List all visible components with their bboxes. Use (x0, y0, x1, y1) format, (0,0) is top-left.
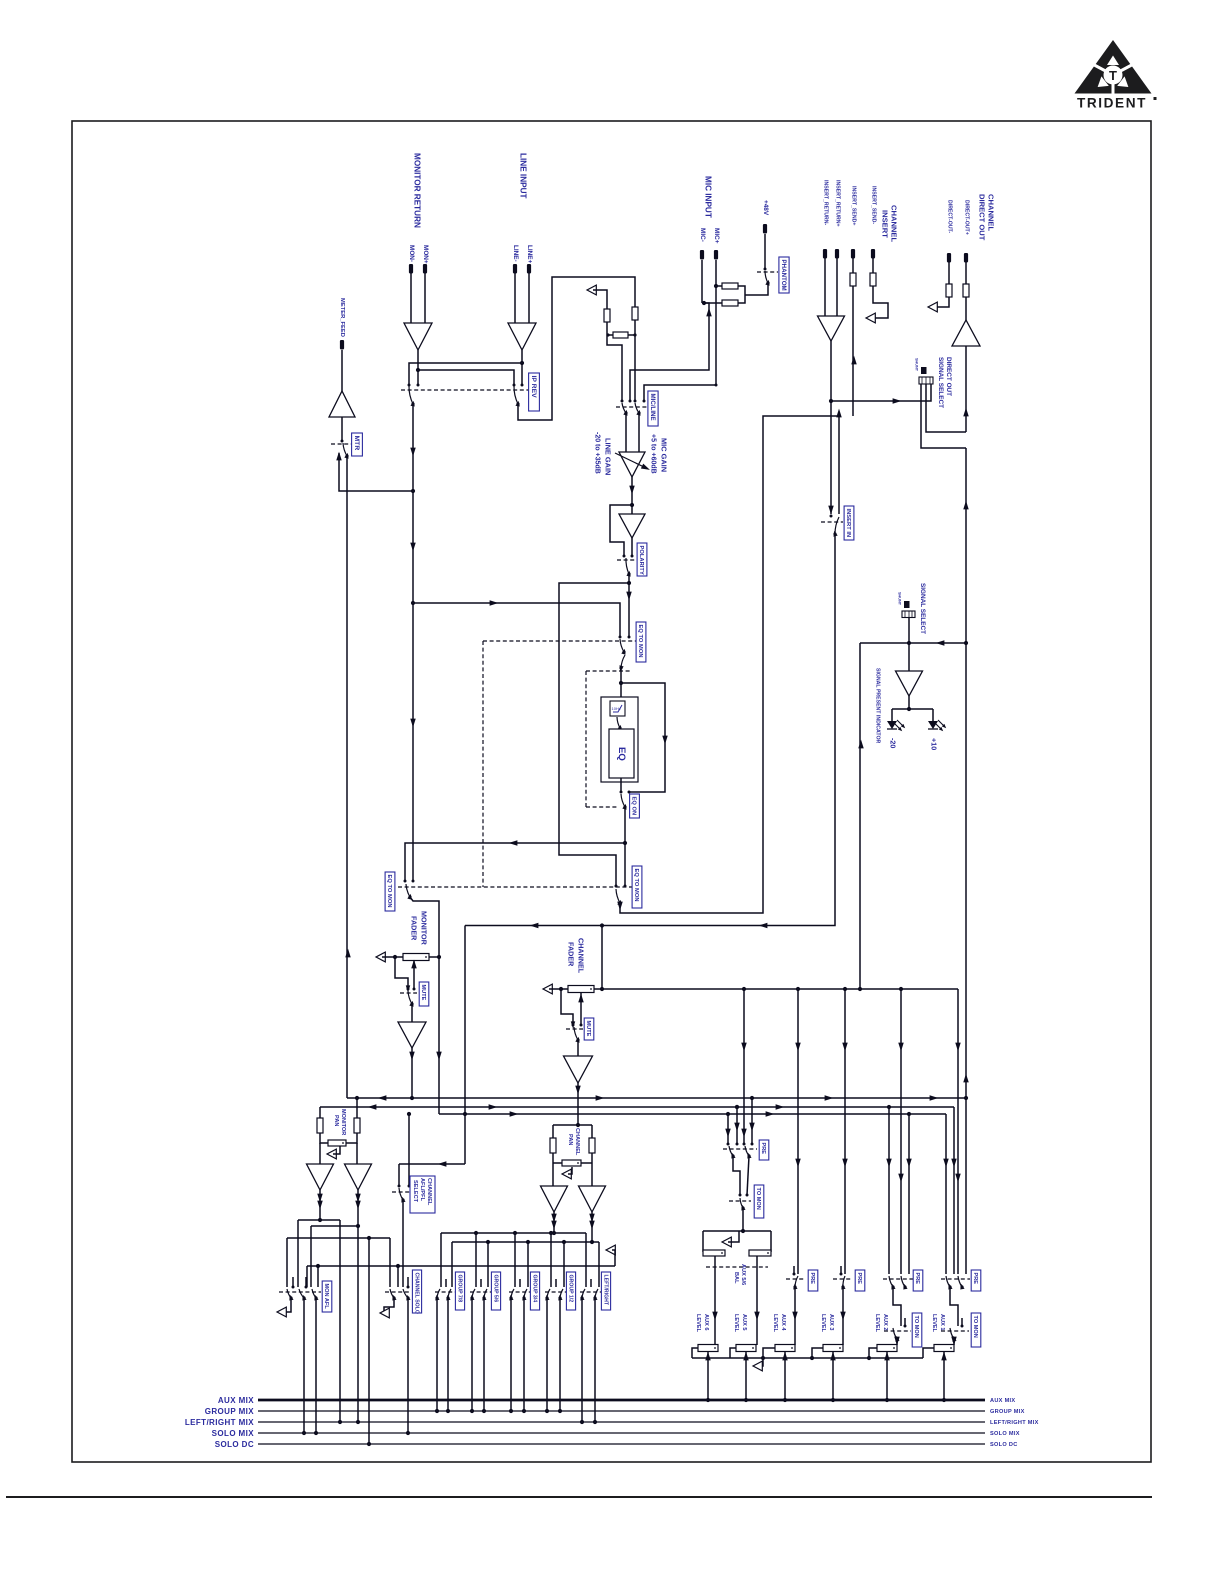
junction monitor out (416, 368, 420, 372)
wire ch fader feed (601, 926, 603, 990)
resistor line R4 (632, 307, 638, 320)
wire led rail (892, 708, 933, 710)
junction group mix (470, 1409, 474, 1413)
switch PRE aux4 (792, 1276, 798, 1290)
wire aux56 rail (703, 1230, 771, 1232)
pot AUX 5/6 BAL left (703, 1250, 725, 1256)
wire GROUP 3/4 bus R (523, 1298, 525, 1411)
wire mon solo L (303, 1298, 305, 1433)
wire GROUP 5/6 feed L (475, 1233, 477, 1287)
svg-text:INSERT: INSERT (880, 210, 889, 238)
dashed MIC/LINE (616, 406, 647, 408)
resistor ch pan L (550, 1138, 556, 1153)
junction group mix (545, 1409, 549, 1413)
op-amp monitor return U1 (404, 323, 432, 350)
contact phantom low (767, 282, 770, 285)
arrow rail1 b (596, 1095, 605, 1100)
svg-text:T: T (1109, 68, 1117, 83)
junction r3 409 (407, 1112, 411, 1116)
wire solo dc drop (368, 1238, 370, 1444)
wire aux6 jog (692, 1348, 698, 1358)
wire mon dist 4 (307, 1265, 615, 1267)
resistor mon pan L (317, 1118, 323, 1133)
svg-text:SOLO MIX: SOLO MIX (990, 1431, 1020, 1437)
arrow drop846 b (842, 1159, 847, 1168)
wire monitor path down (412, 404, 414, 881)
arrow tm1 a (951, 1337, 956, 1346)
box PRE 5/6 (759, 1140, 769, 1160)
stub LEFT/RIGHT L (590, 1279, 592, 1287)
contact eqtm-top a (619, 636, 622, 639)
svg-text:GROUP MIX: GROUP MIX (990, 1409, 1025, 1415)
arrow rail2 a (368, 1104, 377, 1109)
wire GROUP 3/4 feed R (527, 1242, 529, 1287)
arrow AUX 3 wiper (830, 1352, 835, 1361)
contact mon mute b (413, 988, 416, 991)
wire mon fader jog (395, 957, 408, 988)
switch mon afl 2 (299, 1289, 307, 1301)
junction r1 412 (410, 1096, 414, 1100)
wire mdist3 left (286, 1238, 288, 1287)
contact pre56 a (727, 1143, 730, 1146)
svg-text:EQ ON: EQ ON (631, 797, 637, 816)
resistor ch pan R (589, 1138, 595, 1153)
wire line-out to IP REV left (409, 363, 522, 384)
EQ gang dashed bottom (586, 806, 619, 808)
svg-text:MIC INPUT: MIC INPUT (703, 176, 712, 218)
contact tm1 (961, 1325, 964, 1328)
arrow mpanR 2 (355, 1201, 360, 1210)
switch PRE aux1 2 (958, 1276, 965, 1290)
junction mic+ R1 (714, 284, 718, 288)
contact eqon b (628, 791, 631, 794)
svg-text:MON-: MON- (408, 245, 415, 262)
dashed PRE aux3 (833, 1278, 851, 1280)
svg-text:CHANNEL: CHANNEL (426, 1178, 432, 1206)
switch PRE aux2 1 (889, 1276, 896, 1290)
box EQ ON (630, 794, 640, 818)
switch HPF (617, 717, 623, 731)
wire GROUP 1/2 feed R (563, 1242, 565, 1287)
dashed CHANNEL SOLO (385, 1291, 411, 1293)
svg-text:CHANNEL SOLO: CHANNEL SOLO (413, 1273, 419, 1314)
arrow tm2 a (894, 1337, 899, 1346)
arrow eq sel out (617, 902, 622, 911)
wire bal R out (756, 1256, 758, 1345)
resistor mic R1 (722, 283, 738, 289)
box GROUP 1/2 (566, 1272, 575, 1310)
op-amp mic gain U4 (619, 452, 645, 477)
junction AUX 5 bus (744, 1398, 748, 1402)
svg-text:LEVEL: LEVEL (695, 1314, 701, 1333)
junction grB 592 (590, 1240, 594, 1244)
box MON AFL (322, 1281, 332, 1312)
junction r3 909 (907, 1112, 911, 1116)
dashed INSERT IN (821, 521, 843, 523)
arrow eq-monreturn (509, 840, 518, 845)
wire mpan to ampR (356, 1143, 358, 1164)
arrow mpanL 1 (317, 1194, 322, 1203)
dashed POLARITY (617, 559, 637, 561)
junction group mix (435, 1409, 439, 1413)
junction mdist4 b (396, 1264, 400, 1268)
bus to-mon rail 1 (347, 1097, 966, 1099)
contact micline b (629, 400, 632, 403)
contact IP REV d (521, 384, 524, 387)
arrow rail1 c (825, 1095, 834, 1100)
switch AFL/PFL (399, 1188, 406, 1203)
wire mpan Rr low (346, 1133, 357, 1143)
contact pre4 a (793, 1273, 796, 1276)
svg-text:CHANNEL: CHANNEL (574, 1128, 580, 1156)
switch LEFT/RIGHT R (592, 1289, 598, 1301)
resistor do- (946, 284, 952, 297)
svg-text:EQ TO MON: EQ TO MON (637, 625, 643, 658)
pot AUX 5 LEVEL (736, 1345, 756, 1352)
switch MTR (343, 443, 350, 459)
wire into eq (620, 668, 622, 701)
bus GROUP MIX (258, 1410, 985, 1412)
wire mdist1 right (339, 1220, 341, 1422)
switch GROUP 5/6 R (481, 1289, 487, 1301)
wire LEFT/RIGHT feed L (585, 1233, 587, 1287)
connector pin MON+ (423, 264, 427, 274)
box POLARITY (637, 543, 647, 576)
wire mon-out to IP REV right (418, 370, 514, 384)
contact pre56 c (743, 1143, 746, 1146)
arrow drop798 a (795, 1043, 800, 1052)
wire ch fader jog (561, 989, 573, 1024)
wire return+ down (836, 258, 838, 316)
wire polarity feedback (610, 505, 632, 556)
wire do pin1 (921, 384, 966, 448)
arrow cpanR 1 (589, 1214, 594, 1223)
junction insert out (829, 399, 833, 403)
wire MIC- down (701, 260, 703, 303)
wire R3 down (606, 322, 608, 335)
wire sig sel down (908, 618, 910, 672)
arrow drop846 a (842, 1043, 847, 1052)
connector pin DIRECT-OUT- (947, 253, 951, 263)
arrow pre1b (951, 1159, 956, 1168)
stub mon b2 (305, 1277, 307, 1287)
wire mon wiper (413, 961, 415, 988)
connector do-select block (919, 377, 933, 384)
svg-text:GROUP 3/4: GROUP 3/4 (531, 1275, 537, 1303)
wire mon fader right (429, 956, 439, 958)
svg-text:SELECT: SELECT (412, 1180, 418, 1203)
junction r2 889 (887, 1105, 891, 1109)
wire GROUP 5/6 bus R (483, 1298, 485, 1411)
switch EQ ON (621, 794, 628, 810)
wire mdist4 stub (317, 1266, 319, 1287)
wire pre56 pole2 (747, 1156, 749, 1195)
dashed TO MON 5/6 (729, 1200, 751, 1202)
svg-text:TRIDENT: TRIDENT (1077, 96, 1147, 111)
contact mon mute a (407, 988, 410, 991)
arrow rail3 a (510, 1111, 519, 1116)
junction afl b (907, 641, 911, 645)
svg-text:MIC-: MIC- (699, 228, 706, 242)
contact aflpfl a (398, 1185, 401, 1188)
wire insert amp out (830, 341, 832, 514)
junction rail 845 (843, 987, 847, 991)
wire mon fader down (438, 957, 440, 1114)
wire R4 down (634, 320, 636, 401)
wire mon branch to eq (413, 603, 620, 636)
wire monitor amp out (417, 350, 419, 384)
wire LEFT/RIGHT bus L (581, 1298, 583, 1422)
wire do+ amp (965, 297, 967, 320)
switch GROUP 1/2 L (544, 1289, 550, 1301)
svg-text:TO MON: TO MON (755, 1188, 761, 1210)
open arrow ch solo (380, 1308, 389, 1318)
junction mdist2 (356, 1224, 360, 1228)
switch GROUP 3/4 L (508, 1289, 514, 1301)
svg-text:+10: +10 (930, 738, 939, 750)
wire mdist4 left (306, 1266, 308, 1287)
switch MUTE ch (574, 1027, 581, 1043)
junction group mix (482, 1409, 486, 1413)
wire cpan Rr low (591, 1153, 593, 1186)
svg-text:MONITOR: MONITOR (340, 1109, 346, 1135)
wire GROUP 7/8 bus L (436, 1298, 438, 1411)
wire AUX 3 wiper (832, 1351, 834, 1400)
junction r2 737 (735, 1105, 739, 1109)
svg-text:MUTE: MUTE (420, 985, 426, 1001)
box INSERT IN (844, 506, 854, 540)
wire mic- to R2 (702, 302, 722, 304)
switch ch solo 1 (390, 1289, 397, 1301)
box MTR (352, 433, 363, 456)
arrow mon contact (406, 985, 410, 992)
contact eqtm-l b (412, 880, 415, 883)
wire tie to phantom (745, 284, 768, 295)
wire aflpfl rail (399, 1163, 465, 1165)
arrow balR (754, 1312, 759, 1321)
open arrow ch fader (543, 984, 552, 994)
dashed TO MON aux2 (884, 1330, 911, 1332)
svg-text:SOLO DC: SOLO DC (215, 1440, 254, 1449)
svg-text:PAN: PAN (333, 1115, 339, 1126)
junction grA 515 (513, 1231, 517, 1235)
svg-text:LEVEL: LEVEL (874, 1314, 880, 1333)
wire mpanL out (319, 1190, 321, 1220)
wire GROUP 7/8 feed L (440, 1233, 442, 1287)
arrow monitor path 3 (410, 719, 415, 728)
wire AUX 1 wiper (943, 1351, 945, 1400)
pot AUX 3 LEVEL (823, 1345, 843, 1352)
open arrow aux56 (722, 1237, 731, 1247)
stub GROUP 5/6 L (480, 1279, 482, 1287)
connector pin MIC- (700, 250, 704, 260)
arrow pre56 f2 (734, 1123, 739, 1132)
arrow AUX 2 wiper (884, 1352, 889, 1361)
svg-text:EQ TO MON: EQ TO MON (386, 875, 392, 908)
svg-text:GROUP 7/8: GROUP 7/8 (456, 1275, 462, 1303)
svg-text:AUX 4: AUX 4 (780, 1314, 786, 1331)
wire tm1 out (953, 1339, 955, 1345)
wire ch fader in (549, 988, 568, 990)
resistor line R5 (613, 332, 628, 338)
wire pre1 jog (950, 1287, 958, 1326)
junction eq post (623, 841, 627, 845)
wire mon dist 3 (287, 1237, 390, 1239)
open arrow mpan wiper (327, 1149, 336, 1159)
contact eqon a (620, 791, 623, 794)
wire pre2 jog (893, 1287, 901, 1326)
op-amp mon pan R U12 (345, 1164, 372, 1190)
wire led left (891, 709, 893, 721)
wire GROUP 1/2 bus R (559, 1298, 561, 1411)
junction mic- node (702, 301, 706, 305)
contact pre56 d (751, 1143, 754, 1146)
op-amp monitor U9 (398, 1022, 426, 1048)
wire eq bypass right (621, 683, 665, 792)
contact IP REV a (408, 384, 411, 387)
wire trim arrow (593, 290, 607, 309)
connector pin INSERT_RETURN- (823, 249, 827, 259)
svg-text:INSERT_RETURN-: INSERT_RETURN- (822, 180, 828, 226)
wire GROUP 3/4 feed L (514, 1233, 516, 1287)
wire aux1 jog (923, 1348, 934, 1358)
wire line path jog (518, 277, 635, 420)
arrow monitor path 2 (410, 543, 415, 552)
wire afl riser (859, 643, 861, 989)
dashed AFL/PFL (392, 1191, 410, 1193)
wire LEFT/RIGHT bus R (594, 1298, 596, 1422)
box GROUP 3/4 (530, 1272, 539, 1310)
open arrow mon fader (376, 952, 385, 962)
arrow rail3 b (766, 1111, 775, 1116)
box EQ TO MON left (385, 872, 395, 911)
junction lr mix (593, 1420, 597, 1424)
wire AUX 2 wiper (886, 1351, 888, 1400)
arrow MTR long up (345, 949, 350, 958)
wire MON- to amp (410, 273, 412, 323)
svg-text:POLARITY: POLARITY (638, 546, 644, 575)
wire pre56 jog (733, 1156, 740, 1195)
arrow insert down (828, 506, 833, 515)
junction rail 901 (899, 987, 903, 991)
arrow pre56 f1 (725, 1129, 730, 1138)
junction group mix (522, 1409, 526, 1413)
stub GROUP 7/8 L (445, 1279, 447, 1287)
wire mic+ to R1 (716, 285, 722, 287)
wire MTR long down (346, 456, 348, 1098)
bus to-mon rail 2 (320, 1106, 954, 1108)
arrow rail1 a (378, 1095, 387, 1100)
junction grB 528 (526, 1240, 530, 1244)
junction eq node (627, 581, 631, 585)
pot AUX 5/6 BAL right (749, 1250, 771, 1256)
svg-text:PRE: PRE (972, 1273, 978, 1285)
dashed AUX 5/6 BAL (706, 1266, 768, 1268)
svg-text:LEFT/RIGHT MIX: LEFT/RIGHT MIX (990, 1420, 1039, 1426)
wire pre56 feed 2 (736, 1107, 738, 1144)
box MUTE ch (584, 1018, 594, 1040)
svg-text:SHUNT: SHUNT (915, 358, 919, 372)
junction auxrail 869 (867, 1356, 871, 1360)
wire AUX 4 wiper (784, 1351, 786, 1400)
wire micline out1 (625, 413, 627, 452)
box TO MON aux2 (912, 1313, 922, 1347)
svg-text:LINE INPUT: LINE INPUT (518, 153, 527, 199)
arrow drop958 a (955, 1043, 960, 1052)
svg-text:LEVEL: LEVEL (733, 1314, 739, 1333)
switch IP REV right (514, 386, 521, 407)
junction rail 860 (858, 987, 862, 991)
wire ch amp out (577, 1083, 579, 1125)
wire GROUP 1/2 feed L (550, 1233, 552, 1287)
wire aflpfl feed a (398, 1164, 400, 1186)
svg-text:LINE+: LINE+ (526, 245, 533, 264)
wire LINE- to amp (514, 273, 516, 323)
arrow afl feed (936, 640, 945, 645)
dashed MUTE ch (566, 1028, 583, 1030)
contact micline c (634, 400, 637, 403)
arrow cpanL 1 (551, 1214, 556, 1223)
wire aux56 arrow jog (728, 1231, 739, 1242)
contact mon b2 (305, 1286, 308, 1289)
bus SOLO MIX (258, 1432, 985, 1434)
wire cpanL out (553, 1212, 555, 1233)
arrow meter select (963, 501, 968, 510)
switch GROUP 7/8 L (434, 1289, 440, 1301)
wire mic+ branch (644, 385, 716, 401)
LED +10 (928, 720, 947, 732)
wire line sw branch (607, 335, 622, 401)
switch MUTE mon (408, 991, 415, 1007)
bus SOLO DC (258, 1443, 985, 1445)
arrow drop966 (963, 1074, 968, 1083)
switch MIC/LINE 1 (622, 403, 629, 416)
open arrow line trim (587, 285, 596, 295)
wire eq bypass head (559, 583, 629, 886)
wire GROUP 7/8 bus R (447, 1298, 449, 1411)
arrow afl riser (858, 740, 863, 749)
svg-text:DIRECT-OUT-: DIRECT-OUT- (946, 200, 952, 233)
junction MTR-mon (411, 489, 415, 493)
dashed LEFT/RIGHT (580, 1291, 607, 1293)
EQ gang dashed top (586, 670, 631, 672)
wire rail drop 958 (957, 989, 959, 1274)
wire micline out2 (638, 413, 640, 452)
svg-text:LEVEL: LEVEL (931, 1314, 937, 1333)
pot channel pan (562, 1160, 581, 1166)
junction rail 744 (742, 987, 746, 991)
open arrow aux rail (753, 1361, 762, 1371)
dashed PRE aux4 (786, 1278, 804, 1280)
svg-text:10Hz: 10Hz (612, 706, 621, 711)
svg-text:EQ TO MON: EQ TO MON (633, 869, 639, 902)
svg-text:SIGNAL PRESENT INDICATOR: SIGNAL PRESENT INDICATOR (874, 668, 880, 743)
svg-text:METER_FEED: METER_FEED (339, 298, 345, 337)
arrow pre2c (906, 1159, 911, 1168)
arrow monitor path 1 (410, 448, 415, 457)
junction AUX 2 bus (885, 1398, 889, 1402)
wire GROUP 7/8 feed R (451, 1242, 453, 1287)
box EQ TO MON top (636, 622, 646, 662)
wire afl-pfl long riser (464, 926, 466, 1165)
wire eq to mon-return (405, 843, 625, 881)
dashed PRE aux1 (941, 1278, 970, 1280)
op-amp line input U2 (508, 323, 536, 350)
contact eqtm-bot b (624, 885, 627, 888)
wire send- b (872, 286, 888, 318)
arrow pre56 f3 (741, 1129, 746, 1138)
svg-text:MONITOR: MONITOR (420, 911, 429, 946)
